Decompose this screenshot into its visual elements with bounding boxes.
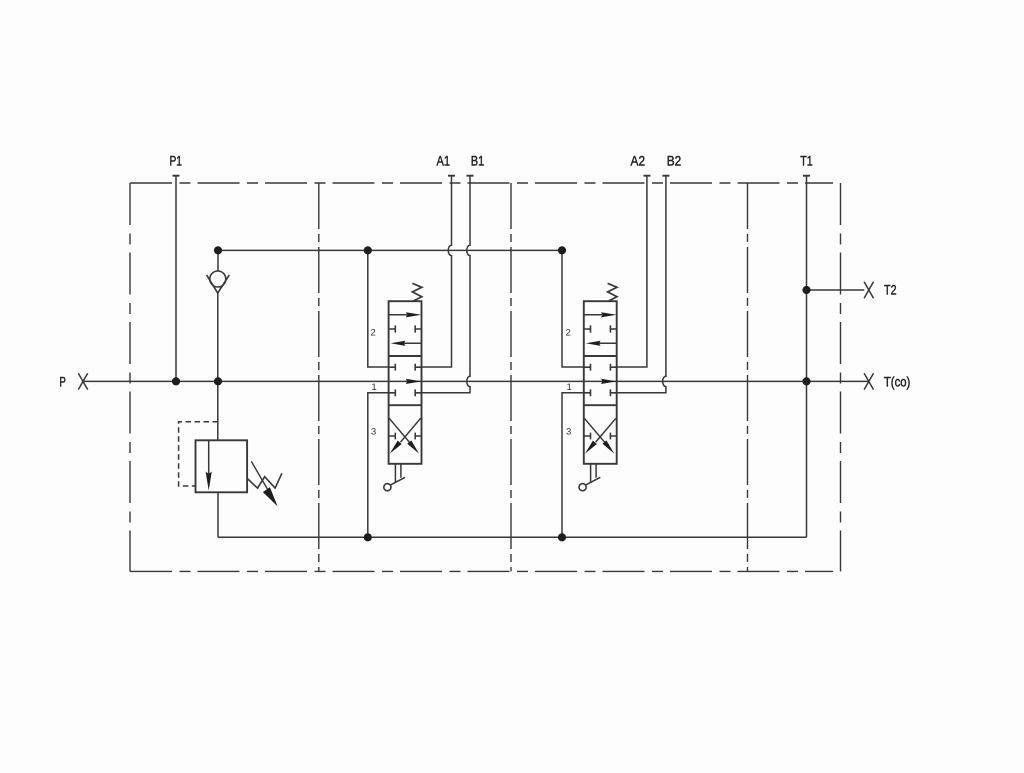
node: V2 return junction on bottom line — [558, 533, 566, 541]
port A2 stub — [643, 175, 650, 177]
wire P1 vertical — [175, 176, 177, 382]
directional valve V2 — [579, 283, 617, 491]
wire relief outlet — [217, 492, 219, 537]
svg-text:3: 3 — [566, 427, 571, 438]
port T(co) symbol X — [864, 373, 873, 389]
cell2 arrow left — [403, 342, 422, 344]
directional valve V1 — [384, 283, 422, 491]
cell3 X cross — [389, 418, 420, 442]
node: V1 feed tap on top line — [364, 246, 372, 254]
cell2 arrow right — [389, 314, 407, 316]
section divider 1 — [318, 183, 320, 571]
svg-text:3: 3 — [371, 427, 376, 438]
port P1 stub — [173, 175, 180, 177]
svg-text:2: 2 — [566, 327, 571, 338]
relief valve RV1 body — [196, 440, 248, 492]
cell3 ticks — [584, 433, 617, 440]
cell2 arrow right — [584, 314, 602, 316]
cell3 ticks — [389, 433, 422, 440]
wire T2 branch — [807, 289, 865, 291]
cell2 ticks — [389, 325, 422, 332]
svg-text:P: P — [59, 373, 66, 389]
port B2 stub — [662, 175, 669, 177]
svg-text:P1: P1 — [169, 152, 182, 168]
section divider 3 — [747, 183, 749, 571]
lever actuator — [395, 464, 401, 483]
node: P1 junction on main line — [172, 377, 180, 385]
relief valve RV1 internal flow arrow — [208, 440, 210, 474]
spring — [412, 283, 421, 301]
node: V1 return junction on bottom line — [364, 533, 372, 541]
port A1 stub — [448, 175, 455, 177]
svg-text:T2: T2 — [884, 282, 897, 298]
wire A1 vertical with hops — [422, 176, 452, 367]
relief valve RV1 pilot line (dashed) — [179, 422, 218, 486]
body — [389, 301, 422, 464]
relief valve RV1 spring — [247, 473, 282, 488]
cell1 main arrow — [601, 379, 617, 384]
svg-text:1: 1 — [567, 382, 572, 393]
cell1 ticks lower — [584, 389, 617, 396]
svg-text:B1: B1 — [471, 152, 485, 168]
svg-text:A2: A2 — [631, 152, 646, 168]
svg-text:1: 1 — [371, 382, 376, 393]
body — [584, 301, 617, 464]
port B1 stub — [467, 175, 474, 177]
section divider 2 — [510, 183, 512, 571]
node: T1 junction on main line — [802, 377, 810, 385]
wire top distribution line — [218, 249, 562, 251]
cell1 main arrow — [406, 379, 422, 384]
valve body boundary (chain-line border) — [130, 183, 841, 571]
node: relief branch junction on main line — [214, 377, 222, 385]
wire valve V2 left return — [562, 393, 584, 538]
cell2 arrow left — [598, 342, 617, 344]
cell1 ticks upper — [389, 364, 422, 371]
cell2 ticks — [584, 325, 617, 332]
wire main P line — [83, 380, 869, 382]
port T2 symbol X — [864, 282, 873, 298]
check valve CV1 — [207, 250, 230, 440]
cell3 X cross — [584, 418, 615, 442]
wire valve V2 left feed — [562, 250, 584, 367]
port T1 stub — [803, 175, 810, 177]
node: V2 feed tap on top line — [558, 246, 566, 254]
port P symbol X — [78, 373, 87, 389]
svg-text:T(co): T(co) — [884, 373, 911, 389]
wire T1 vertical — [806, 176, 808, 538]
cell1 ticks lower — [389, 389, 422, 396]
lever actuator — [591, 464, 597, 483]
wire bottom return line — [218, 536, 807, 538]
wire B1 vertical with hops — [422, 176, 471, 393]
relief valve RV1 adjustment arrow — [251, 461, 267, 489]
wire B2 vertical with hop — [617, 176, 666, 393]
svg-text:A1: A1 — [437, 152, 451, 168]
node: check-valve tap on top line — [214, 246, 222, 254]
svg-text:T1: T1 — [800, 152, 813, 168]
wire valve V1 left return — [368, 393, 389, 538]
wire A2 vertical — [617, 176, 647, 367]
node: T2 branch junction on T1 line — [802, 286, 810, 294]
svg-text:B2: B2 — [667, 152, 682, 168]
cell1 ticks upper — [584, 364, 617, 371]
wire valve V1 left feed — [368, 250, 389, 367]
spring — [608, 283, 617, 301]
svg-text:2: 2 — [370, 327, 375, 338]
